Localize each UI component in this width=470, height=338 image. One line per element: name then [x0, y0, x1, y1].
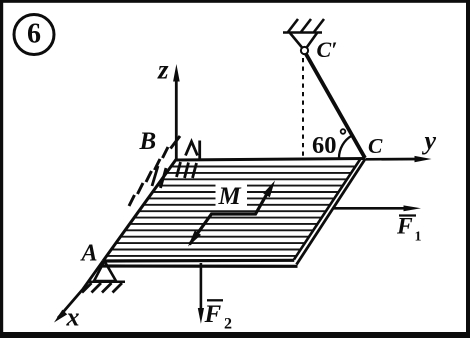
- svg-text:x: x: [66, 303, 80, 332]
- plate bottom edge inner: [103, 259, 294, 263]
- support at A: pin triangle: [94, 261, 116, 281]
- border frame (decorative): [0, 0, 470, 3]
- rod C'C: [306, 54, 365, 158]
- plate surface hatch lines: [107, 167, 356, 256]
- svg-text:M: M: [218, 183, 242, 210]
- hinge pin circle at C': [301, 47, 308, 54]
- support at B: triangle: [186, 141, 200, 161]
- dashed projection line from C' to plate: [302, 58, 304, 157]
- svg-text:y: y: [422, 126, 437, 155]
- plate right edge inner: [294, 158, 361, 260]
- label F2 with overbar: [204, 300, 233, 332]
- ceiling hatching at C': [288, 19, 324, 32]
- variant number badge 6: [14, 15, 54, 55]
- plate left edge A-B: [103, 160, 176, 262]
- svg-text:2: 2: [224, 316, 232, 333]
- support at B: wall hatching along AB edge: [129, 136, 180, 206]
- y-axis: [366, 156, 432, 162]
- label M: [216, 183, 248, 211]
- angle arc at C: [339, 136, 352, 159]
- label 60 degrees: [312, 129, 345, 159]
- x-axis: [54, 261, 103, 323]
- svg-text:A: A: [80, 240, 98, 266]
- moment M zigzag couple arrow: [188, 181, 275, 247]
- svg-text:F: F: [204, 301, 222, 328]
- label F1 with overbar: [396, 214, 422, 245]
- support at A: ground line: [89, 281, 125, 284]
- svg-text:60: 60: [312, 132, 337, 159]
- force F1: [334, 205, 422, 211]
- plate top edge B-C: [175, 159, 366, 161]
- plate bottom edge outer (thickness): [100, 264, 298, 267]
- svg-text:6: 6: [27, 19, 41, 50]
- svg-text:C′: C′: [317, 37, 338, 62]
- svg-text:z: z: [157, 55, 169, 85]
- force F2: [198, 263, 204, 324]
- support at B: hatching below edge: [152, 162, 197, 188]
- svg-text:C: C: [368, 134, 383, 158]
- z-axis: [173, 64, 180, 161]
- plate right edge outer (thickness): [297, 159, 366, 265]
- svg-text:F: F: [396, 214, 413, 240]
- support at A: ground hatching: [82, 283, 122, 293]
- svg-text:1: 1: [415, 230, 422, 245]
- ceiling line at C': [283, 31, 322, 34]
- svg-text:B: B: [139, 128, 157, 155]
- support triangle at C': [290, 33, 317, 51]
